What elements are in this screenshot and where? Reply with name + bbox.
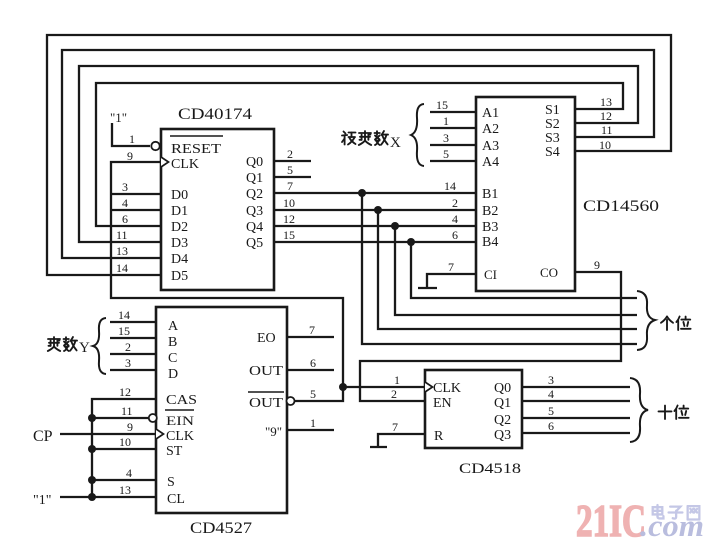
wire U1 pin1 RESET elbow — [112, 123, 150, 146]
svg-text:B: B — [168, 335, 177, 350]
svg-text:1: 1 — [394, 373, 400, 387]
svg-text:D: D — [168, 367, 178, 382]
input brace multiplicand X — [411, 104, 424, 166]
svg-text:S3: S3 — [545, 131, 560, 146]
U3 internal pin name OUTbar with overbar — [248, 391, 284, 393]
wire Q2 to B1 — [274, 192, 476, 194]
wire U3 "9" pin 1 stub — [287, 429, 334, 431]
svg-text:ST: ST — [166, 444, 183, 459]
svg-text:A: A — [168, 319, 179, 334]
svg-text:D5: D5 — [171, 269, 188, 284]
svg-text:CD4518: CD4518 — [459, 461, 521, 477]
svg-text:CI: CI — [484, 267, 497, 282]
svg-text:B1: B1 — [482, 187, 498, 202]
svg-text:5: 5 — [310, 387, 316, 401]
svg-text:OUT: OUT — [249, 396, 284, 411]
svg-text:2: 2 — [391, 387, 397, 401]
wire Q3 to B2 — [274, 209, 476, 211]
svg-text:.com: .com — [640, 508, 704, 543]
svg-text:"1": "1" — [110, 110, 127, 125]
U3 EIN inversion bubble — [149, 414, 157, 422]
svg-text:EO: EO — [257, 331, 276, 346]
svg-text:13: 13 — [116, 244, 128, 258]
svg-text:4: 4 — [548, 387, 554, 401]
wire U3 A pin 14 — [110, 321, 156, 323]
node Q4/B3 tap — [391, 222, 399, 230]
wire U3 S pin 4 — [92, 479, 156, 481]
wire U4 Q3 pin 6 — [522, 432, 630, 434]
svg-text:14: 14 — [118, 308, 130, 322]
svg-text:S4: S4 — [545, 145, 560, 160]
node Q2/B1 tap — [358, 189, 366, 197]
IC U4 CD4518 body — [425, 370, 522, 448]
svg-text:Q4: Q4 — [246, 220, 263, 235]
svg-text:10: 10 — [283, 196, 295, 210]
wire U1 Q1 pin 5 stub — [274, 176, 311, 178]
svg-text:A2: A2 — [482, 122, 499, 137]
svg-text:Y: Y — [79, 340, 90, 356]
U1 CLK clock-input triangle — [161, 157, 169, 167]
node S tie — [88, 476, 96, 484]
wire U1 Q0 pin 2 stub — [274, 160, 311, 162]
svg-text:6: 6 — [452, 228, 458, 242]
svg-text:CLK: CLK — [433, 381, 461, 396]
wire U2 CO pin9 to U4 EN pin2 — [360, 272, 621, 401]
svg-text:EIN: EIN — [166, 413, 195, 428]
node Q3/B2 tap — [374, 206, 382, 214]
svg-text:5: 5 — [548, 404, 554, 418]
svg-text:13: 13 — [119, 483, 131, 497]
wire tap4 down to units line — [411, 242, 637, 298]
svg-text:CLK: CLK — [171, 157, 199, 172]
wire U2 A1 pin 15 — [430, 111, 476, 113]
svg-text:9: 9 — [127, 420, 133, 434]
svg-text:EN: EN — [433, 396, 452, 411]
svg-text:D3: D3 — [171, 236, 188, 251]
svg-text:Q0: Q0 — [494, 381, 511, 396]
svg-text:S1: S1 — [545, 103, 560, 118]
svg-text:11: 11 — [601, 123, 613, 137]
svg-text:Q0: Q0 — [246, 155, 263, 170]
svg-text:D1: D1 — [171, 204, 188, 219]
svg-text:D2: D2 — [171, 220, 188, 235]
wire U2 CI pin 7 with stub foot — [427, 274, 476, 288]
wire U3 OUT pin 6 stub — [287, 369, 334, 371]
svg-text:5: 5 — [287, 163, 293, 177]
svg-text:3: 3 — [125, 356, 131, 370]
label tens digit 十位 — [659, 406, 672, 420]
svg-text:15: 15 — [118, 324, 130, 338]
wire U3 CAS pin 12 from tie-high rail — [92, 399, 156, 418]
svg-text:14: 14 — [444, 179, 456, 193]
svg-text:S2: S2 — [545, 117, 560, 132]
svg-text:"9": "9" — [265, 424, 282, 439]
svg-text:Q1: Q1 — [246, 171, 263, 186]
IC U1 CD40174 body — [161, 129, 274, 290]
svg-text:D0: D0 — [171, 188, 188, 203]
svg-text:10: 10 — [599, 138, 611, 152]
wire U1 D0 pin 3 — [111, 193, 161, 195]
svg-text:CL: CL — [167, 492, 185, 507]
svg-text:3: 3 — [548, 373, 554, 387]
svg-text:14: 14 — [116, 261, 128, 275]
U3 internal pin name EIN with overbar — [165, 409, 194, 411]
wire tap3 down to units line — [395, 226, 637, 315]
node Q5/B4 tap — [407, 238, 415, 246]
svg-text:10: 10 — [119, 435, 131, 449]
wire loop S3(pin11) to D4(pin13) — [62, 50, 654, 258]
svg-text:15: 15 — [283, 228, 295, 242]
svg-text:7: 7 — [448, 260, 454, 274]
svg-text:12: 12 — [600, 109, 612, 123]
svg-text:13: 13 — [600, 95, 612, 109]
svg-text:D4: D4 — [171, 252, 188, 267]
wire U3 C pin 2 — [110, 353, 156, 355]
svg-text:7: 7 — [287, 179, 293, 193]
svg-text:12: 12 — [119, 385, 131, 399]
svg-text:6: 6 — [310, 356, 316, 370]
svg-text:CAS: CAS — [166, 393, 197, 408]
svg-text:Q3: Q3 — [494, 428, 511, 443]
IC U2 CD14560 body — [476, 97, 575, 291]
wire U3 CL pin 13 from logic-1 — [60, 496, 156, 498]
wire tap2 down to units line — [378, 210, 637, 329]
svg-text:Q2: Q2 — [246, 187, 263, 202]
IC U3 CD4527 body — [156, 307, 287, 513]
wire U3 ST pin 10 — [92, 448, 156, 450]
svg-text:B4: B4 — [482, 235, 498, 250]
svg-text:4: 4 — [122, 196, 128, 210]
svg-text:Q2: Q2 — [494, 413, 511, 428]
svg-text:7: 7 — [392, 420, 398, 434]
svg-text:Q1: Q1 — [494, 396, 511, 411]
wire U4 Q1 pin 4 — [522, 400, 630, 402]
label multiplicand 被乘数X — [342, 132, 356, 145]
U4 CLK clock triangle — [425, 382, 433, 392]
label units digit 个位 — [661, 317, 673, 331]
svg-text:6: 6 — [548, 419, 554, 433]
svg-text:B2: B2 — [482, 204, 498, 219]
wire U3 D pin 3 — [110, 369, 156, 371]
output brace tens digit — [630, 378, 648, 442]
svg-text:11: 11 — [116, 228, 128, 242]
svg-text:A1: A1 — [482, 106, 499, 121]
svg-text:15: 15 — [436, 98, 448, 112]
wire U2 A3 pin 3 — [430, 144, 476, 146]
wire CP to U3 CLK pin 9 — [60, 433, 156, 435]
svg-text:CO: CO — [540, 265, 558, 280]
wire loop S1(pin13) to D2(pin6) — [96, 83, 623, 226]
wire loop S2(pin12) to D3(pin11) — [79, 66, 638, 242]
svg-text:4: 4 — [126, 466, 132, 480]
wire U2 A2 pin 1 — [430, 127, 476, 129]
svg-text:1: 1 — [310, 416, 316, 430]
svg-text:C: C — [168, 351, 177, 366]
wire Q5 to B4 — [274, 241, 476, 243]
svg-text:4: 4 — [452, 212, 458, 226]
svg-text:12: 12 — [283, 212, 295, 226]
node EIN tie — [88, 414, 96, 422]
wire U2 A4 pin 5 — [430, 160, 476, 162]
svg-text:Q3: Q3 — [246, 204, 263, 219]
U1 internal pin name RESET with overbar — [170, 135, 223, 137]
svg-text:11: 11 — [121, 404, 133, 418]
input brace multiplier Y — [93, 318, 106, 374]
output brace units digit — [637, 291, 655, 350]
svg-text:3: 3 — [443, 131, 449, 145]
svg-text:RESET: RESET — [171, 142, 222, 157]
node clock net to U4 CLK junction — [339, 383, 347, 391]
svg-text:5: 5 — [443, 147, 449, 161]
svg-text:OUT: OUT — [249, 364, 284, 379]
svg-text:Q5: Q5 — [246, 236, 263, 251]
wire U4 R pin 7 with stub foot — [378, 434, 425, 447]
wire U4 Q0 pin 3 — [522, 386, 630, 388]
node CL tie — [88, 493, 96, 501]
svg-text:6: 6 — [122, 212, 128, 226]
svg-text:CP: CP — [33, 428, 53, 445]
svg-text:7: 7 — [309, 323, 315, 337]
svg-text:1: 1 — [443, 114, 449, 128]
wire U4 Q2 pin 5 — [522, 417, 630, 419]
svg-text:R: R — [434, 429, 444, 444]
svg-text:9: 9 — [594, 258, 600, 272]
U3 CLK clock triangle — [156, 429, 164, 439]
svg-text:1: 1 — [129, 132, 135, 146]
wire U3 B pin 15 — [110, 337, 156, 339]
svg-text:S: S — [167, 475, 175, 490]
wire clock net OUTbar->U1 CLK — [111, 162, 343, 401]
label multiplier 乘数Y — [48, 337, 60, 351]
wire tap1 down to units line — [362, 193, 637, 344]
node ST tie — [88, 445, 96, 453]
svg-text:X: X — [390, 135, 401, 151]
U3 OUTbar inversion bubble — [287, 397, 295, 405]
svg-text:B3: B3 — [482, 220, 498, 235]
svg-text:21IC: 21IC — [576, 495, 646, 546]
svg-text:A4: A4 — [482, 155, 499, 170]
tie rail vertical — [91, 418, 93, 497]
svg-text:2: 2 — [125, 340, 131, 354]
svg-text:CD14560: CD14560 — [583, 198, 659, 215]
svg-text:3: 3 — [122, 180, 128, 194]
wire clock net to U4 CLK pin1 — [343, 386, 425, 388]
svg-text:"1": "1" — [33, 493, 51, 508]
svg-text:A3: A3 — [482, 139, 499, 154]
svg-text:CD40174: CD40174 — [178, 106, 252, 123]
svg-text:2: 2 — [452, 196, 458, 210]
wire loop S4(pin10) to D5(pin14) — [47, 35, 671, 275]
svg-text:CLK: CLK — [166, 429, 194, 444]
wire U3 EIN pin 11 — [92, 417, 149, 419]
svg-text:2: 2 — [287, 147, 293, 161]
U1 pin1 RESET inversion bubble — [151, 142, 159, 150]
svg-text:CD4527: CD4527 — [190, 520, 252, 537]
wire Q4 to B3 — [274, 225, 476, 227]
wire U1 D1 pin 4 — [111, 209, 161, 211]
wire U3 EO pin 7 stub — [287, 336, 334, 338]
